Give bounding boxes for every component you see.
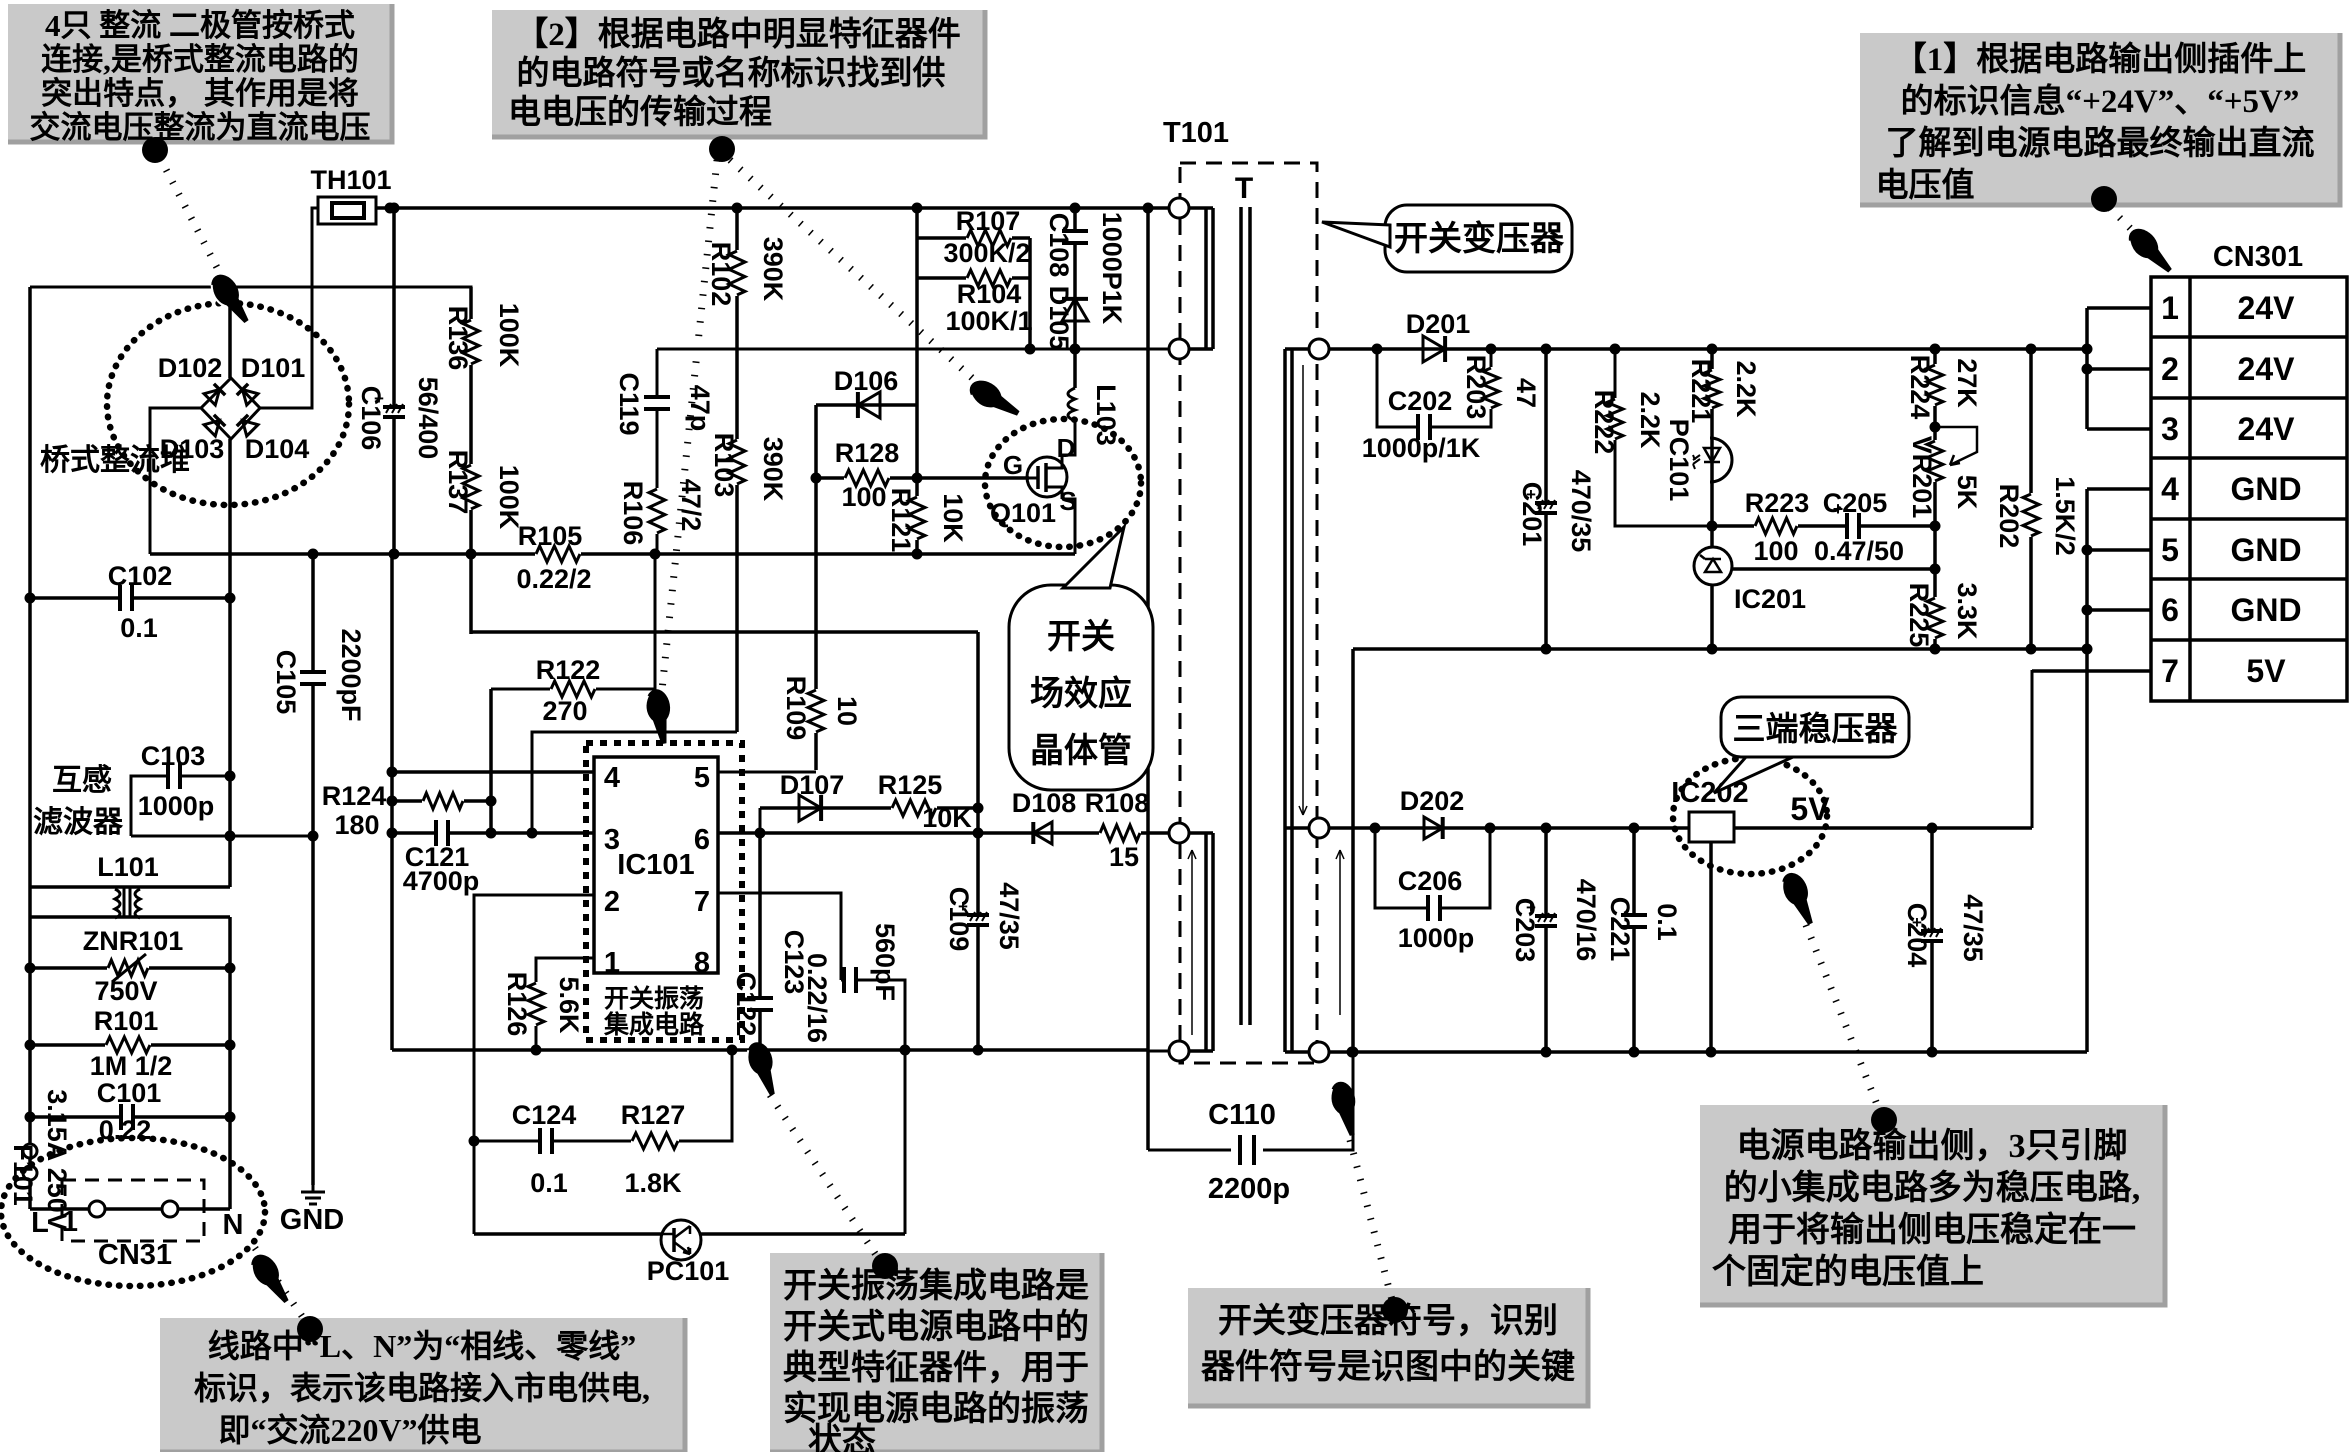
svg-text:R223: R223	[1745, 488, 1810, 518]
transistor Q101 MOSFET	[1027, 457, 1067, 497]
svg-text:R122: R122	[536, 655, 601, 685]
wire gate line y=478	[816, 476, 1029, 480]
svg-text:0.1: 0.1	[1652, 903, 1682, 941]
capacitor C103	[170, 763, 178, 789]
diode D103	[204, 415, 225, 436]
resistor R102	[726, 250, 748, 296]
wire L101 top rung y=887	[30, 885, 230, 889]
svg-text:27K: 27K	[1952, 358, 1982, 408]
node junction VR201/R223	[1930, 521, 1941, 532]
node junction gnd to CN301	[2082, 644, 2093, 655]
wire secondary gnd rail y=649	[1353, 647, 2087, 651]
svg-text:5: 5	[2161, 532, 2179, 568]
svg-text:CN31: CN31	[98, 1239, 172, 1271]
svg-text:S: S	[1059, 486, 1076, 516]
wire startup divider x=471	[469, 287, 473, 634]
resistor R126	[525, 982, 547, 1026]
svg-text:电电压的传输过程: 电电压的传输过程	[508, 94, 772, 131]
svg-text:2200pF: 2200pF	[336, 628, 366, 721]
hand pointer from IC101 bottom	[742, 1039, 784, 1099]
svg-text:C108: C108	[1044, 213, 1074, 278]
transformer feedback winding	[1189, 833, 1213, 1051]
wire C122 branch x=760	[758, 833, 762, 1050]
svg-text:R103: R103	[709, 433, 739, 498]
svg-text:C204: C204	[1902, 903, 1932, 968]
diode D107	[799, 795, 821, 821]
svg-text:300K/2: 300K/2	[943, 238, 1030, 268]
svg-text:2.2K: 2.2K	[1635, 391, 1665, 449]
transformer T101 dashed box	[1180, 163, 1317, 1063]
wire snubber return x=1148	[1146, 208, 1150, 1150]
svg-text:开关振荡集成电路是: 开关振荡集成电路是	[783, 1267, 1089, 1305]
svg-text:1000p: 1000p	[1398, 923, 1475, 953]
capacitor C122	[747, 1000, 773, 1008]
optocoupler PC101 LED	[1710, 438, 1732, 482]
connector CN301 box	[2151, 277, 2347, 701]
wire C101 rung y=1117	[30, 1115, 230, 1119]
capacitor C124	[542, 1128, 550, 1154]
capacitor C121	[438, 820, 446, 846]
svg-text:开关变压器: 开关变压器	[1394, 220, 1565, 258]
connector CN301 row divider 4	[2151, 517, 2347, 521]
svg-text:C221: C221	[1605, 897, 1635, 962]
transformer secondary polarity arrow upper	[1302, 365, 1304, 815]
leader dot note 2	[709, 136, 735, 162]
resistor R101	[105, 1034, 151, 1056]
wire R122 line y=689	[491, 554, 655, 689]
capacitor C201 electrolytic	[1535, 505, 1557, 511]
node junction pin3 left	[387, 828, 398, 839]
leader line note2 to IC101	[662, 160, 717, 690]
svg-text:0.22/2: 0.22/2	[516, 564, 591, 594]
svg-text:4: 4	[604, 762, 620, 794]
wire Q101 drain to L103	[1062, 421, 1075, 455]
wire Vcc branch x=978	[976, 632, 980, 1050]
speech bubble switching FET	[1009, 585, 1153, 790]
svg-text:D104: D104	[245, 434, 310, 464]
node junction snubber-return top	[1143, 203, 1154, 214]
svg-text:状态: 状态	[808, 1422, 876, 1452]
svg-text:【1】根据电路输出侧插件上: 【1】根据电路输出侧插件上	[1894, 41, 2307, 78]
svg-text:R101: R101	[94, 1006, 159, 1036]
wire C102 rung y=598	[30, 596, 230, 600]
svg-text:GND: GND	[2230, 532, 2301, 568]
wire pin7 line	[718, 893, 841, 980]
wire R103 jog to IC pin3	[532, 732, 737, 835]
svg-text:5: 5	[694, 762, 710, 794]
wire CN301 pin3 stub	[2087, 427, 2151, 431]
svg-text:1.8K: 1.8K	[624, 1168, 682, 1198]
svg-text:1000p/1K: 1000p/1K	[1362, 433, 1481, 463]
wire R102/R103 chain x=737	[735, 208, 739, 732]
svg-text:D105: D105	[1044, 286, 1074, 351]
capacitor C203 branch	[1544, 828, 1548, 1052]
wire R122 left leg x=491	[489, 689, 493, 833]
svg-text:47/35: 47/35	[1958, 894, 1988, 962]
svg-text:C123: C123	[779, 930, 809, 995]
wire bridge left vertex lead	[150, 408, 201, 554]
transformer secondary winding pin mid	[1309, 818, 1329, 838]
capacitor C108	[1062, 233, 1088, 241]
node junction PC101 right leg	[900, 1045, 911, 1056]
capacitor C202	[1420, 414, 1428, 440]
svg-text:1000P1K: 1000P1K	[1097, 212, 1127, 325]
leader dot LN note	[297, 1316, 323, 1342]
resistor R222	[1604, 398, 1626, 440]
wire pin1 line	[536, 958, 594, 1050]
svg-text:电压值: 电压值	[1876, 167, 1975, 204]
capacitor C110 wire	[1148, 1052, 1353, 1150]
ellipse around IC202 (dotted)	[1673, 758, 1827, 874]
capacitor C204 electrolytic	[1921, 933, 1943, 939]
wire secondary gnd bottom rail y=1052	[1329, 1050, 2087, 1054]
svg-text:ZNR101: ZNR101	[83, 926, 184, 956]
ground GND symbol	[301, 1185, 325, 1204]
callout note: L N mains marking (bottom-left)	[160, 1318, 685, 1452]
transformer primary winding	[1189, 208, 1213, 349]
svg-text:R125: R125	[878, 770, 943, 800]
hand pointer at Q101	[965, 375, 1025, 424]
resistor R136	[460, 319, 482, 365]
varistor ZNR101	[107, 957, 149, 979]
node junction pin3 R122	[486, 828, 497, 839]
wire R221/PC101 branch x=1712	[1710, 349, 1714, 649]
leader dot oscillator note	[872, 1253, 898, 1279]
wire CN301 24V bus	[2085, 308, 2089, 429]
svg-text:390K: 390K	[758, 237, 788, 302]
svg-text:C110: C110	[1208, 1099, 1276, 1131]
svg-text:PC101: PC101	[647, 1256, 730, 1286]
hand pointer at T101 bottom	[1326, 1079, 1364, 1138]
svg-text:C124: C124	[512, 1100, 577, 1130]
wire C105/GND vertical x=313	[311, 554, 315, 1185]
svg-text:突出特点， 其作用是将: 突出特点， 其作用是将	[41, 76, 359, 111]
node junction PC101/R222	[1707, 521, 1718, 532]
callout note: bridge rectifier explanation (top-left)	[8, 4, 392, 142]
hand pointer at bridge	[205, 269, 257, 328]
svg-text:7: 7	[694, 886, 710, 918]
node junction C201 bottom	[1541, 644, 1552, 655]
leader line note1 to CN301	[2110, 208, 2140, 238]
wire R224/VR201/R225 branch x=1935	[1933, 349, 1937, 649]
node junction C124 left	[469, 1136, 480, 1147]
node junction C106 bottom	[389, 549, 400, 560]
node junction R128 left	[811, 473, 822, 484]
resistor R202 branch x=2031	[2029, 349, 2033, 649]
node junction C102 left	[25, 593, 36, 604]
svg-text:开关: 开关	[1047, 618, 1115, 656]
wire pin4 line y=772	[392, 770, 594, 774]
svg-text:D102: D102	[158, 353, 223, 383]
resistor R103	[726, 439, 748, 485]
node junction IC201 anode	[1707, 644, 1718, 655]
svg-text:T101: T101	[1163, 117, 1229, 149]
resistor R105	[535, 543, 581, 565]
svg-text:个固定的电压值上: 个固定的电压值上	[1712, 1253, 1984, 1291]
thermistor TH101	[318, 197, 376, 224]
wire bridge right vertex to TH101	[260, 208, 318, 408]
wire L101 bottom rung y=917	[30, 915, 230, 919]
wire primary negative rail y=554	[150, 552, 1075, 556]
svg-text:1: 1	[62, 1206, 78, 1238]
wire IC201 ref line y=569	[1732, 567, 1935, 571]
svg-text:GND: GND	[2230, 592, 2301, 628]
svg-text:0.47/50: 0.47/50	[1814, 536, 1904, 566]
svg-text:L101: L101	[97, 852, 159, 882]
node junction R221 top	[1707, 344, 1718, 355]
svg-text:24V: 24V	[2238, 290, 2296, 326]
node junction C122 bottom	[755, 1045, 766, 1056]
wire snubber left x=917	[915, 208, 919, 554]
ellipse around Q101 (dotted)	[985, 419, 1141, 547]
svg-text:T: T	[1235, 172, 1253, 205]
wire 5V diode rail y=828	[1329, 826, 1689, 830]
node junction R202 top	[2026, 344, 2037, 355]
connector CN301 divider	[2188, 277, 2192, 701]
svg-text:PC101: PC101	[1664, 419, 1694, 502]
wire pin6 line y=833	[718, 831, 978, 835]
svg-text:线路中“L、N”为“相线、零线”: 线路中“L、N”为“相线、零线”	[208, 1328, 636, 1364]
resistor R107	[966, 227, 1012, 249]
node junction R124 left	[387, 796, 398, 807]
transformer feedback polarity arrow	[1191, 850, 1193, 1035]
svg-text:560pF: 560pF	[870, 923, 900, 1001]
wire C119/R106 branch x=655	[657, 349, 1210, 554]
node junction C109 bottom	[973, 1045, 984, 1056]
svg-text:R121: R121	[886, 488, 916, 553]
IC IC202 regulator box	[1689, 812, 1734, 842]
svg-text:C119: C119	[614, 372, 644, 435]
svg-text:R225: R225	[1904, 583, 1934, 648]
node junction C110 right top	[1348, 1047, 1359, 1058]
wire C124/R127 line y=1141	[474, 1050, 732, 1141]
wire top DC rail y=208	[376, 206, 1179, 210]
inductor L101 common-mode choke	[115, 889, 140, 918]
svg-text:R221: R221	[1686, 359, 1716, 424]
svg-text:R124: R124	[322, 781, 387, 811]
svg-text:开关振荡: 开关振荡	[604, 985, 704, 1013]
leader line T101 to note	[1350, 1140, 1392, 1300]
svg-text:C206: C206	[1398, 866, 1463, 896]
svg-text:C109: C109	[944, 887, 974, 952]
wire 24V rail y=349	[1329, 347, 2087, 351]
inductor L103	[1068, 388, 1075, 421]
node junction C203 top	[1541, 823, 1552, 834]
svg-text:R126: R126	[502, 972, 532, 1037]
ellipse around bridge (dotted)	[107, 303, 349, 505]
svg-text:标识，表示该电路接入市电供电,: 标识，表示该电路接入市电供电,	[194, 1370, 650, 1406]
wire CN301 pin2 stub	[2087, 367, 2151, 371]
leader dot transformer-symbol note	[1382, 1297, 1408, 1323]
wire bridge bottom vertex lead	[228, 439, 232, 887]
svg-text:5.6K: 5.6K	[554, 976, 584, 1034]
svg-text:的电路符号或名称标识找到供: 的电路符号或名称标识找到供	[517, 55, 946, 92]
wire PC101 line y=1234	[474, 1232, 663, 1236]
node junction pin4 left	[387, 767, 398, 778]
connector CN301 row divider 5	[2151, 577, 2347, 581]
node junction R128 right	[912, 473, 923, 484]
svg-text:R203: R203	[1461, 355, 1491, 420]
svg-text:R128: R128	[835, 438, 900, 468]
wire D107/R125 line y=808	[760, 806, 978, 810]
capacitor C206	[1430, 895, 1438, 921]
wire C103 box	[131, 776, 313, 836]
diode D108	[1033, 822, 1052, 844]
capacitor C123	[846, 967, 854, 993]
svg-text:集成电路: 集成电路	[603, 1010, 705, 1039]
svg-text:N: N	[223, 1209, 244, 1241]
svg-text:电源电路输出侧，3只引脚: 电源电路输出侧，3只引脚	[1737, 1127, 2128, 1165]
node junction C105 top	[308, 549, 319, 560]
svg-text:F101: F101	[8, 1144, 38, 1206]
svg-text:56/400: 56/400	[413, 377, 443, 460]
transformer secondary winding	[1285, 349, 1309, 1052]
speech bubble switching transformer	[1385, 205, 1572, 272]
optocoupler PC101 transistor	[661, 1220, 701, 1260]
wire R124 line y=801	[392, 799, 491, 803]
node junction C203 bottom	[1541, 1047, 1552, 1058]
svg-text:滤波器: 滤波器	[33, 806, 124, 839]
node junction C201 top	[1541, 344, 1552, 355]
svg-text:3: 3	[604, 824, 620, 856]
node junction IC202 gnd	[1706, 1047, 1717, 1058]
hand pointer at IC202	[1776, 869, 1822, 929]
svg-text:D101: D101	[241, 353, 306, 383]
resistor R106	[646, 488, 668, 534]
node junction R202 bottom	[2026, 644, 2037, 655]
svg-text:CN301: CN301	[2213, 241, 2303, 273]
transformer secondary winding pin bottom	[1309, 1042, 1329, 1062]
svg-text:桥式整流堆: 桥式整流堆	[40, 444, 190, 477]
trimmer VR201	[1924, 440, 1946, 482]
svg-text:IC101: IC101	[617, 849, 694, 881]
svg-text:C103: C103	[141, 741, 206, 771]
leader line IC202 to note	[1806, 925, 1880, 1112]
wire IC202 gnd pin	[1709, 842, 1713, 1052]
capacitor C119	[644, 399, 670, 407]
svg-text:100K: 100K	[494, 303, 524, 368]
resistor R121	[906, 496, 928, 540]
svg-text:R107: R107	[956, 206, 1021, 236]
resistor R124	[422, 790, 464, 812]
ellipse around CN31 (dotted)	[1, 1138, 265, 1286]
svg-text:G: G	[1003, 450, 1023, 480]
wire CN301 pin7 stub	[2032, 669, 2151, 673]
wire D106 line y=405	[816, 403, 917, 407]
svg-text:D202: D202	[1400, 786, 1465, 816]
svg-text:R102: R102	[706, 242, 736, 307]
callout note 2: trace supply voltage path (top-middle)	[492, 10, 985, 137]
svg-text:C201: C201	[1517, 482, 1547, 547]
transformer core lines	[1241, 207, 1250, 1025]
wire ZNR101 rung y=968	[30, 966, 230, 970]
wire left mains rail x=30	[28, 287, 32, 1209]
node junction R102 top	[732, 203, 743, 214]
svg-text:VR201: VR201	[1907, 436, 1937, 519]
svg-text:0.1: 0.1	[530, 1168, 568, 1198]
node junction pin3 R103	[527, 828, 538, 839]
resistor R221	[1701, 369, 1723, 409]
resistor R122	[550, 678, 596, 700]
wire pin3 line y=833	[392, 831, 594, 835]
node junction R101 left	[25, 1040, 36, 1051]
svg-text:10: 10	[832, 696, 862, 726]
svg-text:D201: D201	[1406, 309, 1471, 339]
wire gnd right riser x=2087	[2085, 489, 2089, 1052]
svg-text:750V: 750V	[94, 976, 157, 1006]
node junction pin6 right	[973, 828, 984, 839]
svg-text:1: 1	[604, 947, 620, 979]
svg-text:IC201: IC201	[1734, 584, 1806, 614]
node junction R127 top	[727, 1045, 738, 1056]
svg-text:100: 100	[1753, 536, 1798, 566]
wire C106 branch x=394	[392, 208, 396, 554]
node junction D105 bottom	[1070, 344, 1081, 355]
leader line note bridge	[160, 158, 225, 283]
svg-text:R224: R224	[1905, 355, 1935, 420]
wire CN301 pin4 stub	[2087, 487, 2151, 491]
node junction R203 top	[1486, 344, 1497, 355]
svg-text:场效应: 场效应	[1030, 675, 1132, 713]
resistor R203	[1480, 367, 1502, 409]
svg-text:典型特征器件，用于: 典型特征器件，用于	[783, 1349, 1089, 1387]
wire AC input top y=287	[30, 287, 471, 634]
node junction R224 top	[1930, 344, 1941, 355]
capacitor C106 electrolytic	[383, 409, 405, 415]
svg-text:47/35: 47/35	[994, 882, 1024, 950]
wire R101 rung y=1045	[30, 1043, 230, 1047]
wire CN31 rung y=1209	[30, 1207, 230, 1211]
capacitor C109 electrolytic	[967, 917, 989, 923]
svg-text:8: 8	[694, 947, 710, 979]
svg-text:C106: C106	[356, 386, 386, 451]
node junction C204 top	[1927, 823, 1938, 834]
wire primary gnd x=392	[390, 554, 394, 1050]
transformer primary winding pin top	[1169, 198, 1189, 218]
wire D107 left leg	[759, 808, 762, 833]
svg-text:连接,是桥式整流电路的: 连接,是桥式整流电路的	[41, 42, 359, 77]
resistor R224	[1924, 364, 1946, 406]
transformer primary winding pin bottom	[1169, 339, 1189, 359]
node junction C101 right	[225, 1112, 236, 1123]
svg-text:晶体管: 晶体管	[1030, 732, 1132, 770]
node junction R121 bottom	[912, 549, 923, 560]
wire feedback bottom to gnd	[1148, 1050, 1169, 1053]
svg-text:2200p: 2200p	[1208, 1173, 1290, 1205]
svg-text:的小集成电路多为稳压电路,: 的小集成电路多为稳压电路,	[1724, 1169, 2141, 1207]
node junction R125 right	[973, 803, 984, 814]
node junction R107 branch top	[912, 203, 923, 214]
node junction C204 bottom	[1927, 1047, 1938, 1058]
svg-text:4700p: 4700p	[403, 866, 480, 896]
svg-text:互感: 互感	[52, 764, 112, 797]
svg-text:0.1: 0.1	[120, 613, 158, 643]
diode D201	[1423, 336, 1445, 362]
svg-text:470/35: 470/35	[1566, 470, 1596, 553]
svg-text:2: 2	[604, 886, 620, 918]
resistor R225	[1924, 597, 1946, 639]
svg-text:1M 1/2: 1M 1/2	[90, 1051, 173, 1081]
bridge rectifier diamond	[201, 378, 260, 439]
svg-text:3: 3	[2161, 411, 2179, 447]
node junction ZNR right	[225, 963, 236, 974]
svg-text:D: D	[1057, 433, 1076, 463]
resistor R125	[891, 797, 937, 819]
node junction R225 bottom	[1930, 644, 1941, 655]
transformer secondary polarity arrow lower	[1339, 850, 1341, 1015]
svg-text:5V: 5V	[2246, 653, 2286, 689]
node junction R101 right	[225, 1040, 236, 1051]
